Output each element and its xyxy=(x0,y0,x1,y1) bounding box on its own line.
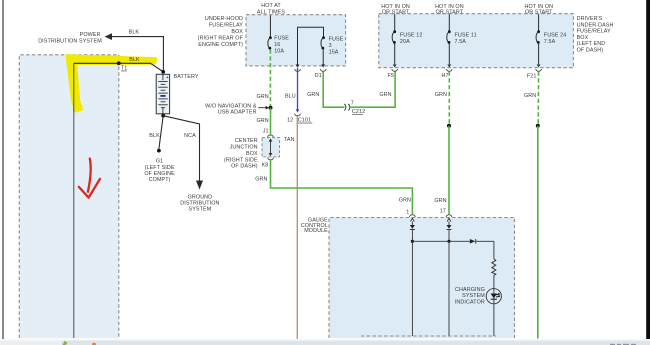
svg-text:GROUND: GROUND xyxy=(188,194,213,200)
svg-text:BOX: BOX xyxy=(231,29,243,35)
wire: BLK battery to ground G1 xyxy=(159,116,163,149)
wire into fuse 11 xyxy=(448,14,450,31)
label: CHARGING SYSTEM INDICATOR xyxy=(455,287,485,305)
window left edge xyxy=(2,0,3,341)
svg-text:K8: K8 xyxy=(262,163,269,169)
svg-text:F21: F21 xyxy=(527,74,537,80)
svg-text:FUSE/RELAY: FUSE/RELAY xyxy=(209,22,243,28)
svg-text:POWER: POWER xyxy=(80,32,101,38)
svg-text:GRN: GRN xyxy=(307,92,319,98)
taskbar strip xyxy=(0,339,650,345)
svg-text:12: 12 xyxy=(287,118,293,124)
label: W/O NAVIGATION & USB ADAPTER with arrow xyxy=(205,103,269,115)
box: under-hood fuse/relay box xyxy=(246,15,346,66)
connector D1 (arrow + arc) xyxy=(320,64,326,71)
wire: TAN from C101 down xyxy=(296,116,298,339)
wire: GRN dashed from F21 to splice xyxy=(537,72,539,125)
svg-text:DISTRIBUTION SYSTEM: DISTRIBUTION SYSTEM xyxy=(38,39,102,45)
box: power distribution region (left dashed blue box) xyxy=(19,55,119,338)
label: pin 12 C101 xyxy=(287,118,312,124)
svg-text:(LEFT SIDE: (LEFT SIDE xyxy=(145,165,175,171)
svg-text:16: 16 xyxy=(274,42,280,48)
svg-text:BOX: BOX xyxy=(577,35,589,41)
svg-text:FUSE: FUSE xyxy=(329,36,344,42)
svg-text:H7: H7 xyxy=(442,73,449,79)
wire into fuse 12 xyxy=(394,14,396,31)
wire: indicator to bottom xyxy=(493,304,495,337)
label: UNDER-HOOD FUSE/RELAY BOX (RIGHT REAR OF ENGINE COMPT) xyxy=(198,16,244,48)
wire: NCA to ground distribution system xyxy=(163,116,199,181)
wire fuse 11 to H7 xyxy=(448,42,450,64)
svg-text:OR START: OR START xyxy=(382,10,410,16)
fuse 11 7.5A xyxy=(447,30,477,45)
svg-text:(RIGHT REAR OF: (RIGHT REAR OF xyxy=(198,35,244,41)
svg-text:COMPT): COMPT) xyxy=(149,177,171,183)
splice dot on GRN wire xyxy=(269,106,273,110)
svg-text:D1: D1 xyxy=(315,73,322,79)
wire into fuse 16 xyxy=(269,15,271,37)
svg-text:FUSE/RELAY: FUSE/RELAY xyxy=(577,29,611,35)
svg-text:FUSE 12: FUSE 12 xyxy=(400,32,423,38)
node T1 junction dot xyxy=(117,61,121,65)
wire: GRN from D1 to F5 via C212 xyxy=(323,72,395,108)
svg-text:(RIGHT SIDE: (RIGHT SIDE xyxy=(224,157,258,163)
svg-text:20A: 20A xyxy=(400,39,410,45)
connector H7 (arrow + arc) xyxy=(446,64,452,71)
svg-text:7.5A: 7.5A xyxy=(544,39,556,45)
battery xyxy=(156,70,169,118)
svg-text:GRN: GRN xyxy=(435,92,447,98)
connector F21 (arrow + arc) xyxy=(536,64,542,71)
svg-text:SYSTEM: SYSTEM xyxy=(189,207,212,213)
arrow to power distribution system xyxy=(105,33,112,40)
svg-text:GRN: GRN xyxy=(434,198,446,204)
svg-text:OF DASH): OF DASH) xyxy=(231,164,258,170)
clamp diode at pin 17 xyxy=(447,222,452,242)
svg-text:+: + xyxy=(166,75,169,81)
svg-text:ENGINE COMPT): ENGINE COMPT) xyxy=(198,42,243,48)
svg-text:INDICATOR: INDICATOR xyxy=(455,299,485,305)
connector C101 arc xyxy=(295,114,301,116)
wire: down from pin 17 branch xyxy=(448,241,450,336)
connector F5 (arrow + arc) xyxy=(392,64,398,71)
net: HOT AT ALL TIMES xyxy=(257,3,285,15)
resistor xyxy=(492,259,496,276)
svg-text:MODULE: MODULE xyxy=(304,228,328,234)
svg-text:SYSTEM: SYSTEM xyxy=(462,293,485,299)
svg-text:HOT AT: HOT AT xyxy=(261,3,281,9)
label: GROUND DISTRIBUTION SYSTEM xyxy=(180,194,219,212)
wire: BLU from under-hood box to C101 xyxy=(297,68,299,111)
fuse 3 15A xyxy=(321,36,344,55)
svg-text:GRN: GRN xyxy=(379,92,391,98)
svg-text:NCA: NCA xyxy=(184,133,196,139)
svg-text:BOX: BOX xyxy=(246,151,258,157)
arrow to ground distribution system xyxy=(196,181,203,190)
svg-text:GRN: GRN xyxy=(524,93,536,99)
label: GAUGE CONTROL MODULE xyxy=(301,218,328,235)
wire: battery feed segment over highlighter xyxy=(73,63,75,111)
svg-text:BLK: BLK xyxy=(129,29,140,35)
svg-text:UNDER-HOOD: UNDER-HOOD xyxy=(205,16,243,22)
fuse 24 7.5A xyxy=(536,30,566,45)
box: driver's under-dash fuse/relay box xyxy=(379,14,574,68)
svg-text:BLU: BLU xyxy=(285,93,296,99)
connector at BLU exit (arrow + arc) xyxy=(295,64,301,71)
wire fuse 12 to F5 xyxy=(394,42,396,64)
connector J1 arc xyxy=(268,135,274,137)
svg-text:F5: F5 xyxy=(388,73,395,79)
svg-text:BATTERY: BATTERY xyxy=(174,74,199,80)
label: POWER DISTRIBUTION SYSTEM xyxy=(38,32,102,44)
svg-text:GRN: GRN xyxy=(257,118,269,124)
box: gauge control module xyxy=(329,218,515,339)
wire into fuse 24 xyxy=(538,14,540,31)
svg-text:7: 7 xyxy=(351,101,354,107)
red annotation arrow xyxy=(79,159,100,198)
clamp diode at pin 1 xyxy=(410,222,415,242)
wire: GRN from K8 to gauge pin 1 xyxy=(271,160,413,215)
wire: GRN solid splice to gauge pin 17 xyxy=(448,126,450,215)
fuse 12 20A xyxy=(392,30,422,45)
diode D1 internal xyxy=(470,239,476,244)
junction box pass-through arrow xyxy=(269,138,273,156)
svg-text:(LEFT END: (LEFT END xyxy=(577,41,606,47)
svg-text:10A: 10A xyxy=(274,49,284,55)
svg-text:FUSE: FUSE xyxy=(274,36,289,42)
wire: GRN solid down right side xyxy=(537,126,539,339)
node junction dots on internal bus xyxy=(411,240,414,243)
svg-text:DISTRIBUTION: DISTRIBUTION xyxy=(180,201,219,207)
wire: down from pin 1 branch xyxy=(411,241,413,336)
box: center junction box xyxy=(262,138,280,157)
wire: to resistor xyxy=(493,241,495,258)
wire: GRN solid splice to J1 xyxy=(270,108,272,135)
wire: BLK highlighted wire from left box to battery xyxy=(74,63,164,72)
svg-text:FUSE 24: FUSE 24 xyxy=(544,32,567,38)
wire: internal bus xyxy=(412,240,494,242)
connector K8 arc xyxy=(268,158,274,160)
svg-text:3: 3 xyxy=(329,43,332,49)
svg-text:USB ADAPTER: USB ADAPTER xyxy=(218,109,257,115)
inner module dashed boundary xyxy=(361,335,496,337)
wire: GRN dashed from fuse 16 to splice xyxy=(269,50,271,107)
svg-text:OF DASH): OF DASH) xyxy=(577,48,604,54)
net: HOT IN ON OR START (fuse 12) xyxy=(381,4,410,15)
svg-text:CENTER: CENTER xyxy=(235,138,258,144)
svg-text:DRIVER'S: DRIVER'S xyxy=(577,16,603,22)
wire: BLK from battery top to power distribution arrow xyxy=(112,37,164,72)
wire: GRN dashed from H7 to splice xyxy=(448,72,450,125)
svg-text:GRN: GRN xyxy=(255,176,267,182)
svg-text:OF ENGINE: OF ENGINE xyxy=(144,171,175,177)
svg-text:GRN: GRN xyxy=(257,94,269,100)
svg-text:15A: 15A xyxy=(329,49,339,55)
svg-text:GRN: GRN xyxy=(399,197,411,203)
net: HOT IN ON OR START (fuse 11) xyxy=(435,4,464,15)
label: T1 xyxy=(121,66,128,72)
svg-text:UNDER-DASH: UNDER-DASH xyxy=(577,22,614,28)
window right edge bar xyxy=(646,0,650,339)
svg-text:1: 1 xyxy=(406,210,409,216)
wire: vertical battery feed inside left box xyxy=(73,63,75,338)
ground G1 terminal dot xyxy=(157,149,161,153)
svg-text:J1: J1 xyxy=(263,128,269,134)
splice dot on H7 wire xyxy=(447,124,451,128)
fuse 16 10A xyxy=(268,36,289,55)
svg-text:BLK: BLK xyxy=(149,133,160,139)
svg-text:G1: G1 xyxy=(156,158,163,164)
svg-text:FUSE 11: FUSE 11 xyxy=(455,32,477,38)
connector pin 1 (arc + arrow) xyxy=(410,215,416,222)
connector pin 17 (arc + arrow) xyxy=(446,215,452,222)
charging system indicator LED xyxy=(486,289,501,304)
svg-text:BLK: BLK xyxy=(129,57,140,63)
wire fuse 3 to box bottom xyxy=(322,48,324,66)
svg-text:CHARGING: CHARGING xyxy=(455,287,485,293)
under-hood box internal wiring for fuse 3 xyxy=(298,27,324,66)
label: G1 (LEFT SIDE OF ENGINE COMPT) xyxy=(144,158,175,183)
svg-text:ALL TIMES: ALL TIMES xyxy=(257,9,285,15)
wire fuse 24 to F21 xyxy=(538,42,540,64)
svg-text:17: 17 xyxy=(440,209,446,215)
svg-text:JUNCTION: JUNCTION xyxy=(230,145,258,151)
label: CENTER JUNCTION BOX (RIGHT SIDE OF DASH) xyxy=(224,138,258,170)
splice dot on F21 wire xyxy=(536,124,540,128)
wire: resistor to indicator lamp xyxy=(493,275,495,289)
svg-text:TAN: TAN xyxy=(284,137,295,143)
yellow highlighter mark xyxy=(66,54,158,113)
inline connector C212 xyxy=(344,101,365,116)
net: HOT IN ON OR START (fuse 24) xyxy=(524,4,553,15)
svg-text:7.5A: 7.5A xyxy=(455,39,467,45)
label: DRIVER'S UNDER-DASH FUSE/RELAY BOX (LEFT END OF DASH) xyxy=(577,16,614,54)
